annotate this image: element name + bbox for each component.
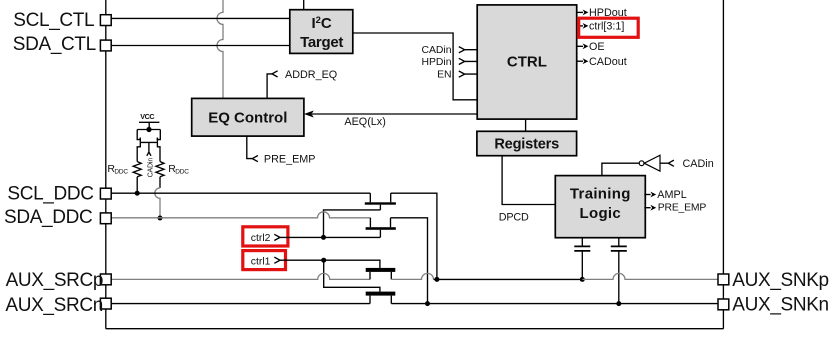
node junction dot Q3 drain on AUX_SRCp [434, 277, 439, 282]
output AMPL from Training Logic [644, 189, 686, 201]
outer box right border [722, 0, 724, 329]
transistor Q3 (SCL_DDC pass FET) [365, 193, 396, 210]
block EQ Control [192, 98, 304, 136]
input HPDin into CTRL [421, 57, 477, 68]
VCC rail [139, 121, 159, 123]
wire ctrl2 net [280, 236, 380, 238]
svg-text:AUX_SRCp: AUX_SRCp [6, 270, 104, 291]
pin SDA_DDC [4, 207, 111, 228]
svg-text:CTRL: CTRL [507, 53, 547, 70]
transistor Q6 (AUX_SRCn pass FET) [366, 292, 396, 304]
wire ctrl1 branch to Q6 gate (hop over AUX_SRCp) [324, 260, 380, 291]
node junction dot on SDA_DDC [158, 216, 163, 221]
svg-text:OE: OE [589, 41, 605, 53]
wire: stub above I2C Target [303, 0, 305, 10]
input EN into CTRL [437, 70, 477, 81]
svg-text:AEQ(Lx): AEQ(Lx) [344, 116, 385, 128]
svg-text:ADDR_EQ: ADDR_EQ [285, 69, 337, 81]
wire: config vertical (gray) with hops over SCL_CTL and SDA_CTL, into EQ Control top [217, 0, 223, 98]
signal stub PRE_EMP below EQ Control [247, 136, 316, 165]
pin AUX_SRCn [5, 295, 111, 316]
svg-text:HPDin: HPDin [421, 57, 451, 68]
svg-text:AUX_SRCn: AUX_SRCn [5, 295, 103, 316]
svg-text:Target: Target [300, 34, 343, 51]
output ctrl[3:1] from CTRL [577, 21, 625, 33]
svg-text:PRE_EMP: PRE_EMP [264, 153, 316, 165]
svg-text:CADout: CADout [589, 56, 627, 68]
svg-text:AUX_SNKn: AUX_SNKn [732, 294, 828, 315]
pin AUX_SNKn [718, 294, 829, 315]
signal CADin into inverter [660, 158, 714, 170]
capacitor C2 (right) from Training Logic to AUX_SRCn [611, 238, 627, 304]
wire SCL_DDC [111, 192, 370, 194]
signal CADin (vertical, gate drive) with up arrow [147, 142, 155, 177]
wire AUX_SRCn to AUX_SNKn [391, 303, 718, 305]
block CTRL [477, 5, 577, 119]
wire AUX_SRCp middle (gray then black) with hop over Q4 drain [391, 273, 433, 279]
power VCC label [140, 112, 154, 121]
wire AUX_SRCn [111, 303, 370, 305]
svg-text:CADin: CADin [148, 158, 155, 178]
transistor pair Q1/Q2 (CAD switch lattice) [137, 130, 160, 150]
svg-text:Registers: Registers [494, 136, 559, 152]
inverter U1 with bubble [639, 155, 660, 171]
wire SDA_CTL [111, 45, 290, 47]
capacitor C1 (left) from Training Logic to AUX_SRCp [574, 238, 590, 280]
svg-text:CADin: CADin [421, 45, 451, 56]
wire Q3 drain to AUX_SRCp [391, 193, 437, 279]
transistor Q5 (AUX_SRCp pass FET) [366, 268, 396, 280]
wire AEQ(Lx) from CTRL to EQ Control with solid arrowhead [304, 111, 477, 129]
wire DPCD: Registers to Training Logic [502, 156, 555, 205]
block Registers [477, 131, 577, 155]
node junction dot on SCL_DDC [135, 191, 140, 196]
pin AUX_SRCp [6, 270, 112, 291]
node ctrl2 junction dot [321, 235, 326, 240]
wire CTRL to Registers [525, 119, 527, 131]
output HPDout from CTRL [577, 7, 627, 19]
wire VCC rail to switch pair [148, 122, 150, 127]
node junction dot Q4 drain on AUX_SRCn [425, 301, 430, 306]
pin SDA_CTL [13, 34, 111, 55]
svg-text:EQ Control: EQ Control [208, 109, 287, 126]
svg-text:PRE_EMP: PRE_EMP [658, 203, 707, 214]
wire AUX_SRCp left segment (gray) with hops [111, 273, 370, 279]
node ctrl1 junction dot [321, 258, 326, 263]
svg-text:SCL_DDC: SCL_DDC [7, 184, 93, 205]
pin SCL_CTL [13, 10, 111, 31]
transistor Q4 (SDA_DDC pass FET) [366, 218, 396, 238]
signal ctrl1 label with red annotation box [251, 257, 280, 268]
wire AUX_SRCp right segment (gray) with hop over C2 [582, 273, 718, 279]
svg-text:SCL_CTL: SCL_CTL [13, 10, 94, 31]
wire Q3 gate to ctrl2 net (hop over SDA_DDC) [324, 210, 381, 238]
svg-text:ctrl2: ctrl2 [251, 233, 271, 244]
svg-text:DDC: DDC [175, 168, 189, 175]
label DPCD [499, 211, 529, 223]
wire: I2C Target output to CTRL lower-left [353, 33, 477, 100]
svg-text:Training: Training [570, 185, 631, 202]
outer box bottom border [106, 328, 724, 330]
output PRE_EMP from Training Logic [644, 203, 706, 214]
resistor R_DDC (right) with hop over SCL_DDC [155, 150, 164, 218]
outer box left border [105, 0, 107, 329]
svg-text:DDC: DDC [114, 168, 128, 175]
svg-text:I2C: I2C [311, 15, 331, 32]
svg-text:AUX_SNKp: AUX_SNKp [732, 270, 828, 291]
pin SCL_DDC [7, 184, 111, 205]
output OE from CTRL [577, 41, 605, 53]
wire from Training Logic top to inverter [602, 163, 639, 175]
node junction dot C2 on AUX_SRCn [616, 301, 621, 306]
node junction dot C1 on AUX_SRCp [580, 277, 585, 282]
svg-text:CADin: CADin [683, 158, 714, 170]
signal ctrl2 label with red annotation box [251, 233, 280, 244]
node VCC junction dot [146, 127, 151, 132]
svg-text:EN: EN [437, 70, 451, 81]
input CADin into CTRL [421, 45, 477, 56]
block Training Logic [555, 176, 645, 238]
signal stub ADDR_EQ [267, 69, 337, 98]
svg-text:ctrl[3:1]: ctrl[3:1] [589, 21, 624, 33]
svg-text:SDA_CTL: SDA_CTL [13, 34, 96, 55]
svg-text:VCC: VCC [140, 112, 154, 121]
label R_DDC (right) [168, 163, 189, 175]
wire SDA_DDC (gray) with hop over ctrl2 vertical [111, 212, 370, 218]
svg-text:AMPL: AMPL [657, 189, 686, 201]
wire SCL_CTL [111, 17, 290, 19]
svg-text:DPCD: DPCD [499, 211, 529, 223]
svg-text:ctrl1: ctrl1 [251, 257, 271, 268]
wire ctrl1 net to Q5 gate [280, 260, 380, 268]
label R_DDC (left) [107, 163, 128, 175]
wire Q4 drain to AUX_SRCn [391, 218, 428, 304]
block I2C Target [290, 10, 353, 54]
output CADout from CTRL [577, 56, 627, 68]
svg-text:SDA_DDC: SDA_DDC [4, 207, 92, 228]
svg-text:Logic: Logic [580, 205, 622, 222]
red annotation box around ctrl[3:1] [579, 18, 639, 37]
resistor R_DDC (left) [133, 150, 141, 193]
pin AUX_SNKp [718, 270, 829, 291]
